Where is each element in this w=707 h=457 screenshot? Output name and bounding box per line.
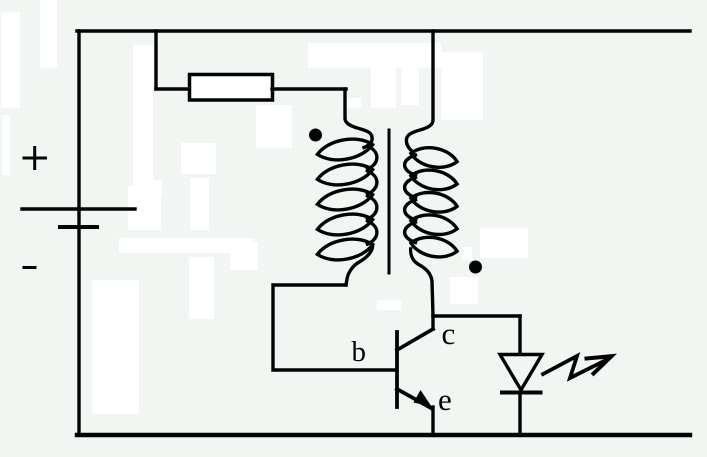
svg-text:b: b [352,336,367,368]
svg-text:c: c [442,316,456,351]
svg-text:e: e [438,382,452,417]
